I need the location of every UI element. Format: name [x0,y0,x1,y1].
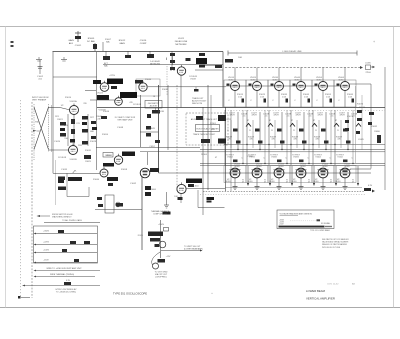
capacitor C1002 input [37,60,44,81]
chassis dashed vertical far left [20,100,22,298]
junction dots 5 [312,144,331,164]
blob under box [152,108,160,114]
svg-text:DC BAL: DC BAL [87,40,96,43]
component in dashed box 1 [196,116,203,120]
dashed adjustment box [186,113,228,145]
junction dots 3 [268,144,287,164]
svg-text:V1104: V1104 [315,157,320,159]
power line +225 [34,241,98,245]
note text dark [207,197,215,203]
svg-text:6DK6: 6DK6 [313,181,319,183]
wire signal to top row [148,86,226,88]
label from vert plugin [37,214,73,219]
power box [34,226,98,263]
wire pot drop [102,42,104,52]
wire lower grid line 1 [200,163,385,165]
wire output tube 6 to right [350,168,371,170]
label stage low 2 [248,155,265,160]
scan page edge left [5,27,7,308]
shield boxes bottom row [224,166,356,183]
output tube V1114 bottom row [335,164,355,190]
svg-text:TYPE 551 OSCILLOSCOPE: TYPE 551 OSCILLOSCOPE [113,292,147,296]
wire stage column 6c [352,110,354,163]
box 6DJ8 label [133,101,162,109]
resistor R1019 [236,141,241,144]
svg-text:6DK6: 6DK6 [335,181,341,183]
svg-text:WIRE THERMAL (TIMING): WIRE THERMAL (TIMING) [50,273,74,276]
output tube V1104 bottom row [313,164,333,190]
svg-text:R1082: R1082 [371,126,378,128]
svg-text:47: 47 [291,120,293,122]
bus +225V dashed [225,67,361,69]
svg-text:C1035: C1035 [61,169,68,171]
label stage top 6 [339,113,358,118]
wire stage column 2d [252,120,254,148]
wire y99 left [90,99,115,101]
svg-text:R1050: R1050 [102,134,109,136]
svg-text:R1028: R1028 [90,141,97,143]
wire vertical x140 [140,95,142,147]
svg-text:VERT PREAMP: VERT PREAMP [32,99,47,102]
svg-text:1.5K: 1.5K [238,97,243,99]
wire delay path [103,64,223,66]
svg-text:R1091: R1091 [138,235,143,237]
title type oscilloscope [113,292,147,296]
note wire 3 [64,280,71,285]
svg-text:47UH: 47UH [317,115,323,117]
svg-text:6DK6: 6DK6 [247,181,253,183]
capacitor cluster right [345,120,372,134]
svg-text:+: + [373,40,375,44]
label +12v [158,256,172,263]
svg-text:C1001: C1001 [75,45,82,47]
label stage top 4 [295,113,314,118]
power line +350 [34,230,98,234]
svg-text:27UH: 27UH [365,72,371,74]
wire plate vertical right [88,52,97,170]
output tube V1084 bottom row [269,164,289,190]
power line +100 [34,249,98,253]
wire y151 mid [140,151,200,153]
wire plate line heavy [97,107,385,109]
output tube V1074 bottom row [247,164,267,190]
title vertical amplifier [306,297,335,301]
svg-text:V1114: V1114 [337,157,342,159]
resistor R1059 [324,141,329,144]
terminal marks below border [36,57,67,61]
resistor R1022 [60,133,66,137]
wire stage column 3a [268,110,270,165]
inductor L1090 at bus end [360,63,375,75]
svg-text:LOWER BEAM: LOWER BEAM [306,289,326,293]
svg-text:V1033: V1033 [190,79,195,81]
wire y209 [95,209,142,211]
svg-text:R1040: R1040 [145,79,152,81]
capacitor C1019 [233,160,238,163]
title lower beam [306,289,326,293]
label 93 ohm [33,122,40,132]
wire mid horizontal 2 [200,151,385,153]
longtail resistor cluster [84,155,91,163]
svg-text:C1062: C1062 [130,183,137,185]
wire V1033 plate drop [180,75,182,107]
connector blob left of dimension [225,59,233,63]
wire stage column 1c [242,110,244,163]
resistor R1069 [346,141,351,144]
svg-text:R1066: R1066 [150,189,156,191]
svg-text:L1085: L1085 [358,139,364,141]
chassis dashed vertical left [31,102,33,298]
wire mid horizontal 0 [225,144,385,146]
svg-text:GEOM: GEOM [158,111,164,113]
tube V1063 with blob [122,152,159,178]
svg-text:NETWORK: NETWORK [175,44,187,46]
svg-text:47UH: 47UH [273,115,279,117]
resistor R1025 [82,116,88,145]
label stage top 3 [273,113,292,118]
wire stage column 4b [303,112,305,150]
svg-text:+100V: +100V [43,250,50,252]
svg-text:V1013A: V1013A [69,100,77,103]
wire box right edge upper [222,52,224,108]
svg-text:R1049: R1049 [149,128,155,130]
distributed amp top tube V1024 [249,68,267,108]
bottom arrow line long [22,285,100,287]
svg-text:RANGES OF PARTS MARKED: RANGES OF PARTS MARKED [322,243,348,246]
resistor R1008 vertical [93,43,97,51]
svg-text:240: 240 [97,119,100,121]
wire x160 down [158,220,168,258]
resistor R1023 [53,170,100,190]
svg-text:4.7K: 4.7K [64,125,69,127]
scan page edge top [0,26,400,28]
svg-text:C1024: C1024 [54,141,61,143]
resistor R1049 [302,141,307,144]
wire mid left horizontal [140,131,158,133]
wire vertical x168 [167,85,169,150]
wire vertical x142 long [141,177,143,251]
plus mark bottom [211,292,213,295]
wire X to grid lower [49,149,69,151]
svg-text:COMP: COMP [140,43,147,45]
heater bus end component [364,185,375,193]
wire cathode pair vertical 1 [67,114,69,146]
svg-text:6DK6: 6DK6 [225,181,231,183]
distributed amp top tube V1044 [293,68,311,108]
wire mid horizontal 1 [200,149,385,151]
voltage notes box [277,210,334,229]
wire stage column 1b [237,112,239,150]
svg-text:1.5K: 1.5K [304,97,309,99]
svg-text:L1110: L1110 [193,186,199,188]
svg-text:R1029: R1029 [85,161,91,163]
svg-text:1.5K: 1.5K [326,97,331,99]
svg-text:R1076: R1076 [359,107,366,109]
capacitor chain C1022 [170,51,175,70]
resistor cluster B [120,92,137,98]
wire top border [53,51,224,53]
wire heavy vertical V1043 plate [158,85,160,173]
dc shift label [115,117,136,122]
inductor L1047 chevron [312,120,317,127]
wire stage column 2c [264,110,266,163]
resistor R1039 [280,141,285,144]
notes caption below [310,229,330,232]
svg-text:GAIN: GAIN [119,42,125,45]
resistor R1038 [271,129,281,133]
scattered value labels [54,57,378,198]
shield box top stage 1 [224,80,246,107]
tube V1053 lower mid [103,153,123,165]
resistor R1068 [337,129,347,133]
wire box corner bottom [198,190,225,208]
svg-text:1.5K: 1.5K [260,97,265,99]
svg-text:VERTICAL AMPLIFIER: VERTICAL AMPLIFIER [306,297,335,301]
resistor R1048 [293,129,303,133]
svg-text:+350V: +350V [43,231,50,233]
resistor small right of input [101,116,107,119]
svg-text:R1014: R1014 [65,97,72,99]
svg-text:47UH: 47UH [251,115,257,117]
capacitor C1045 below signal wire [194,87,199,92]
tick on delay path [166,58,168,61]
label output amplifier heavy [196,58,207,68]
resistor R1028 [249,129,259,133]
svg-text:VIA INTERCONNECT: VIA INTERCONNECT [52,216,72,219]
scan page edge right [393,27,395,308]
svg-text:NO SIGNAL: NO SIGNAL [321,222,330,225]
component in dashed box 2 [218,115,226,121]
input tube V1013B [58,144,78,162]
wire stage column 4a [290,110,292,165]
input label [32,97,49,102]
label stage mid 5 [314,137,321,141]
wire stage column 2a [246,110,248,165]
svg-text:C571 12-62: C571 12-62 [327,284,339,286]
notes dotted leaders [290,219,320,221]
inductor L1017 chevron [246,120,251,127]
wire verticals mid column x203 [203,85,211,215]
transistor Q1094 [155,241,166,248]
svg-text:VERT AMP UNIT: VERT AMP UNIT [117,119,133,122]
shield box top stage 6 [334,80,356,107]
heater bus dashed [203,191,365,193]
inductor L1027 chevron [268,120,273,127]
chassis dashed vertical x177 [176,85,178,192]
input cluster value labels [55,116,95,147]
tube V1073 CF [177,179,225,194]
svg-text:V1094: V1094 [293,157,298,159]
upper shield box left section [53,52,97,206]
capacitor C1069 [343,160,348,163]
dimension line delay cable [228,50,357,56]
notes title line [280,212,313,215]
output tube V1094 bottom row [291,164,311,190]
svg-text:V1084: V1084 [271,157,276,159]
wire cathode pair vertical 2 [73,115,75,146]
svg-text:R1080: R1080 [374,131,380,133]
svg-text:L1021: L1021 [178,38,185,40]
svg-text:V1023: V1023 [97,93,104,95]
svg-text:(LOWER BEAM AMP): (LOWER BEAM AMP) [184,248,203,251]
label DC BAL [87,38,112,44]
wire inner top [195,69,223,71]
wire y147 mid [96,147,200,149]
capacitor C1029 [255,160,260,163]
power box top line [44,219,100,223]
svg-text:VALUES AND SERIAL NUMBER: VALUES AND SERIAL NUMBER [322,241,349,244]
wire grid box bottom [67,173,89,196]
inductor L1037 chevron [290,120,295,127]
wire stage column 3d [274,120,276,148]
distributed amp top tube V1064 [337,68,355,108]
capacitor C1052 [149,140,160,148]
component in dashed box 3 [201,139,226,144]
svg-text:47: 47 [247,120,249,122]
resistor R1018 [227,129,237,133]
notes row 1 [279,219,285,225]
tube V1043 [135,80,147,91]
tube V1033 driver CF [177,65,196,81]
svg-text:VOLTAGE READINGS ARE GIVEN: VOLTAGE READINGS ARE GIVEN IN [280,212,313,215]
junction dots 2 [246,144,265,164]
junction dots 6 [334,144,353,164]
svg-text:C1048: C1048 [117,127,124,129]
resistor cluster thermal [138,232,163,242]
wire stage column 1a [224,110,226,165]
svg-text:+12V: +12V [166,256,171,258]
label 2 [140,40,147,45]
svg-text:R1104: R1104 [201,154,208,156]
terminating resistor R1080 [374,131,381,143]
svg-text:L1090: L1090 [365,63,371,65]
shield box top stage 2 [246,80,268,107]
label stage mid 1 [226,137,233,141]
delay line crossover X [34,104,51,160]
dark blob row lower mid [103,163,118,186]
inner instruction box [191,118,220,136]
svg-text:1.5K: 1.5K [348,97,353,99]
svg-text:TO -1350V (DC LEVEL): TO -1350V (DC LEVEL) [56,292,77,294]
resistor R1029 [258,141,263,144]
wire stage column 6b [347,112,349,150]
wire stage column 6d [340,120,342,148]
svg-text:R1005: R1005 [88,38,95,40]
label row top [68,39,74,45]
label stage mid 4 [292,137,299,141]
shield box top stage 5 [312,80,334,107]
wire to vert sig out [161,250,203,252]
resistor R1058 [315,129,325,133]
svg-text:WIRE TO +GND BUS VERT AMP: WIRE TO +GND BUS VERT AMP UNIT [46,267,82,270]
paragraph small print [322,238,349,249]
wire X to grid upper [49,108,70,110]
capacitor C1014 on top border [125,51,131,58]
label stage mid 2 [248,137,255,141]
svg-text:(CHOPPED): (CHOPPED) [155,277,167,279]
label stage top 2 [251,113,270,118]
svg-text:COMP CIRCUIT: COMP CIRCUIT [153,214,168,216]
label stage mid 3 [270,137,277,141]
bottom dashes [18,296,30,299]
resistor R1021 cathode [57,119,66,126]
resistor R1066 pair [145,186,156,196]
transistor Q1096 [152,252,160,269]
svg-text:R1058: R1058 [121,169,128,171]
power line -150 [34,259,98,263]
tube V1023A [100,81,109,92]
geom label left of box [147,111,164,118]
wire stage column 6a [334,110,336,165]
svg-text:47UH: 47UH [229,115,235,117]
svg-text:6.3V: 6.3V [368,185,373,187]
wire stage column 5d [318,120,320,148]
notes heavy bottom line [279,226,333,228]
note wire 1 [34,267,101,271]
label V1064A [98,110,106,112]
resistor R1049 [146,126,155,137]
tube V1023B [115,96,123,106]
dashed vertical x167 [166,66,168,95]
svg-text:47UH: 47UH [295,115,301,117]
plus registration mark [373,40,375,44]
svg-text:SEE PARTS LIST FOR EARLIER: SEE PARTS LIST FOR EARLIER [322,238,349,241]
svg-text:GAIN: GAIN [68,39,74,42]
extra input cluster blobs [58,122,97,183]
wire into first output tube [159,172,372,174]
junction dots 4 [290,144,309,164]
notes right column [321,222,330,225]
wire lower grid line 2 [200,165,385,167]
shield box top stage 3 [268,80,290,107]
svg-text:L1017: L1017 [225,119,231,121]
wire grid bus top row [226,85,350,87]
label to vert sig out [184,246,203,251]
label stage top 1 [229,113,248,118]
tube V1053B small [100,167,108,177]
svg-text:DELAY LINE: DELAY LINE [175,40,188,43]
svg-text:R1076: R1076 [357,104,364,106]
svg-text:V1064: V1064 [227,157,232,159]
capacitor C1049 [299,160,304,163]
shield box V1043 [136,79,160,96]
svg-text:6DK6: 6DK6 [291,181,297,183]
distributed amp top tube V1034 [271,68,289,108]
open transformer box [97,195,123,213]
label below Q1096 [155,272,168,279]
svg-text:50Ω: 50Ω [238,57,242,59]
capacitor C1018 on top border [147,51,161,66]
svg-text:47: 47 [335,120,337,122]
svg-text:R1012: R1012 [119,40,126,42]
wire stage column 3c [286,110,288,163]
inductor L1067 chevron [356,120,361,127]
wire stage column 4d [296,120,298,148]
svg-text:R1056: R1056 [105,155,111,157]
scan page edge bottom [0,307,400,309]
wire heater return [225,187,362,189]
label TO PIN [96,116,102,121]
label stage top 5 [317,113,336,118]
resistor R1031 [91,121,96,139]
label stage low 6 [336,155,353,160]
output tube V1064 bottom row [225,164,245,190]
svg-text:-150V: -150V [43,260,49,262]
note wire 2 [34,273,96,277]
resistor cluster A [93,79,123,101]
wire left edge of output grid [226,107,232,191]
label stage mid 6 [336,137,343,141]
